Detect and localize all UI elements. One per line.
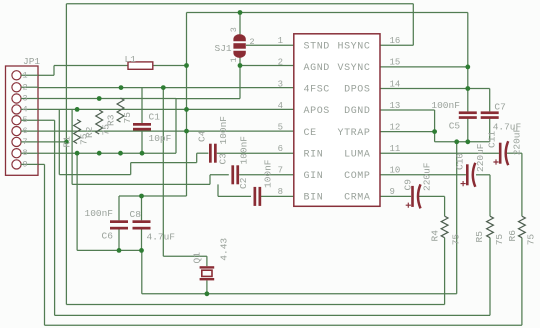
wire staircase	[131, 162, 197, 164]
wire rail A	[142, 293, 457, 295]
wire R4 top	[444, 196, 446, 216]
wire pin16 HSYNC	[380, 44, 413, 46]
wire HSYNC/rail-B left vertical	[65, 4, 67, 305]
capacitor C2	[254, 187, 262, 206]
svg-text:220uF: 220uF	[475, 143, 486, 172]
junction SJ1 pin3 / +5V top	[238, 10, 243, 15]
label C1	[149, 112, 172, 145]
label C5	[431, 100, 460, 132]
svg-text:CRMA: CRMA	[344, 193, 370, 204]
svg-text:5: 5	[278, 122, 283, 132]
wire C8 top lead	[141, 196, 143, 220]
junction Q1 bottom	[205, 291, 210, 296]
svg-text:R5: R5	[474, 231, 485, 243]
svg-text:APOS: APOS	[304, 106, 330, 117]
wire SJ1 pin1	[239, 57, 241, 66]
capacitor C7	[481, 111, 499, 118]
wire staircase	[217, 184, 219, 196]
wire C7 bottom lead	[489, 118, 491, 141]
wire JP1 pin6 / IC pin5 CE	[38, 130, 294, 132]
svg-text:3: 3	[278, 79, 283, 89]
svg-text:1: 1	[278, 36, 283, 46]
wire pin15 VSYNC	[380, 66, 468, 68]
wire C8 bottom lead	[141, 230, 143, 251]
wire L1 to node	[153, 65, 187, 67]
svg-text:R3: R3	[106, 114, 117, 126]
svg-text:C5: C5	[449, 121, 461, 132]
wire JP1 pin5 drop	[54, 120, 56, 315]
svg-text:C7: C7	[494, 102, 505, 113]
junction C10 net	[454, 139, 459, 144]
svg-text:100nF: 100nF	[239, 136, 250, 165]
junction R1 top	[75, 107, 80, 112]
junction C6 bottom	[117, 248, 122, 253]
svg-text:100nF: 100nF	[263, 159, 274, 188]
svg-text:2: 2	[278, 58, 283, 68]
wire JP1 pin4 / IC pin4 APOS	[38, 108, 294, 110]
wire gnd drop left	[76, 153, 78, 250]
svg-text:C4: C4	[197, 130, 208, 142]
junction pin14	[465, 86, 470, 91]
svg-text:JP1: JP1	[23, 56, 40, 67]
capacitor C4	[209, 144, 217, 163]
junction SJ1 pin1 / AGND	[238, 63, 243, 68]
svg-text:YTRAP: YTRAP	[337, 128, 370, 139]
wire +5V right drop to C5	[467, 13, 469, 112]
wire gnd drop	[175, 99, 177, 154]
wire SJ1 pin2 to IC pin1	[246, 44, 294, 46]
wire C7 top lead	[489, 89, 491, 112]
junction R3 bottom	[118, 151, 123, 156]
wire +5V top run	[187, 12, 468, 14]
svg-text:13: 13	[390, 101, 401, 111]
wire pin10 COMP	[380, 174, 466, 176]
wire SJ1 pin3	[239, 13, 241, 35]
svg-text:DGND: DGND	[344, 106, 370, 117]
wire C11 out	[506, 152, 522, 154]
svg-text:C1: C1	[149, 112, 161, 123]
wire C3 left lead	[210, 174, 229, 176]
svg-text:10: 10	[390, 166, 401, 176]
capacitor C8	[133, 220, 151, 229]
wire JP1 pin7	[38, 141, 66, 143]
wire R6 bottom	[521, 238, 523, 326]
svg-text:12: 12	[390, 122, 401, 132]
wire to IC pin2 AGND	[240, 65, 294, 67]
wire staircase	[59, 174, 130, 176]
svg-text:100nF: 100nF	[218, 116, 229, 145]
svg-text:AGND: AGND	[304, 63, 330, 74]
svg-text:4.43: 4.43	[219, 238, 230, 261]
svg-text:2: 2	[23, 82, 28, 92]
wire Q1 bottom lead	[206, 280, 208, 293]
svg-text:1: 1	[229, 57, 239, 62]
svg-text:C11: C11	[486, 131, 497, 148]
solder jumper SJ1	[215, 27, 255, 62]
wire pin14 DPOS	[380, 88, 490, 90]
wire staircase riser	[71, 109, 73, 184]
label C8	[130, 209, 176, 243]
label C7	[493, 102, 522, 133]
svg-text:DPOS: DPOS	[344, 85, 370, 96]
junction R2 top	[97, 96, 102, 101]
wire JP1 pin1	[38, 74, 54, 76]
wire staircase	[130, 163, 132, 175]
wire C5/C7 bottoms	[435, 141, 490, 143]
label C4	[197, 116, 230, 145]
svg-text:GIN: GIN	[304, 171, 324, 182]
svg-text:CE: CE	[304, 128, 317, 139]
resistor R6	[507, 216, 537, 245]
polarized capacitor C9	[406, 184, 421, 208]
wire rail D	[45, 324, 522, 326]
resistor R4	[430, 216, 462, 245]
wire JP1 pin3	[38, 98, 176, 100]
svg-text:7: 7	[278, 166, 283, 176]
wire HSYNC net top	[66, 3, 413, 5]
wire C3 to pin7 GIN	[239, 174, 294, 176]
svg-text:COMP: COMP	[344, 171, 370, 182]
wire ground bus JP1 pin8	[38, 152, 176, 154]
junction R2 bottom	[97, 151, 102, 156]
svg-text:C8: C8	[130, 209, 142, 220]
svg-text:75: 75	[526, 234, 537, 246]
wire pin9 CRMA	[380, 195, 411, 197]
junction CE	[184, 129, 189, 134]
connector JP1	[6, 56, 41, 176]
junction node A	[184, 63, 189, 68]
svg-text:LUMA: LUMA	[344, 149, 370, 160]
wire C9 out	[419, 195, 445, 197]
svg-text:2: 2	[250, 37, 255, 47]
svg-text:9: 9	[390, 187, 395, 197]
svg-text:7: 7	[23, 137, 28, 147]
wire Q1 top lead	[206, 256, 208, 266]
label C6	[85, 208, 114, 242]
resistor R3	[106, 98, 134, 126]
svg-text:75: 75	[122, 112, 133, 124]
label C10	[455, 143, 487, 172]
junction R1 bottom	[75, 151, 80, 156]
svg-text:4: 4	[23, 104, 28, 114]
junction C8 bottom	[139, 248, 144, 253]
svg-text:R1: R1	[62, 136, 73, 148]
wire C1 top lead	[141, 88, 143, 123]
svg-text:R6: R6	[507, 230, 518, 242]
junction 4FSC	[161, 85, 166, 90]
wire +5V riser	[186, 13, 188, 66]
wire JP1 pin2 to IC pin3 4FSC	[38, 87, 294, 89]
svg-text:STND: STND	[304, 42, 330, 53]
wire drop to rail A	[141, 250, 143, 293]
polarized capacitor C11	[493, 141, 508, 165]
capacitor C5	[459, 111, 477, 118]
wire DGND riser	[456, 142, 458, 294]
wire C4 to pin6 RIN	[217, 152, 294, 154]
wire C6 top lead	[118, 196, 120, 220]
svg-text:VSYNC: VSYNC	[337, 63, 370, 74]
svg-text:R4: R4	[430, 230, 441, 242]
wire bypass top	[119, 195, 187, 197]
wire staircase	[196, 153, 198, 162]
svg-text:4FSC: 4FSC	[304, 85, 330, 96]
wire JP1 pin5	[38, 119, 55, 121]
junction APOS	[184, 107, 189, 112]
wire R5 top	[489, 175, 491, 216]
wire 4FSC drop to crystal	[162, 88, 164, 257]
label C11	[486, 126, 522, 155]
svg-text:6: 6	[278, 144, 283, 154]
wire R5 bottom	[489, 238, 491, 316]
svg-text:C6: C6	[102, 231, 114, 242]
resistor R5	[474, 216, 505, 245]
crystal Q1 4.43MHz	[192, 238, 230, 281]
wire to pin16	[412, 4, 414, 46]
svg-text:9: 9	[23, 159, 28, 169]
junction pin12	[432, 129, 437, 134]
wire C1 bottom lead	[141, 131, 143, 154]
svg-text:10pF: 10pF	[149, 133, 172, 144]
svg-text:Q1: Q1	[192, 252, 203, 264]
wire pin12 YTRAP	[380, 131, 435, 133]
wire C2 left lead	[218, 195, 251, 197]
svg-text:6: 6	[23, 126, 28, 136]
svg-text:HSYNC: HSYNC	[337, 42, 370, 53]
svg-text:75: 75	[450, 234, 461, 246]
svg-text:8: 8	[278, 187, 283, 197]
wire R4 bottom	[444, 238, 446, 305]
wire +5V down to bypass caps	[186, 66, 188, 197]
wire C5 bottom lead	[467, 118, 469, 141]
svg-text:100nF: 100nF	[85, 208, 114, 219]
wire staircase	[72, 183, 210, 185]
junction C1 bottom	[140, 151, 145, 156]
svg-text:220uF: 220uF	[511, 126, 522, 155]
wire jog up	[53, 66, 55, 76]
svg-text:1: 1	[23, 70, 28, 80]
label C2	[238, 159, 274, 189]
svg-text:75: 75	[494, 234, 505, 246]
resistor R1	[62, 120, 90, 148]
svg-text:C2: C2	[238, 177, 249, 189]
junction C8 top	[139, 194, 144, 199]
wire JP1 pin9 drop	[44, 164, 46, 325]
wire JP1 pin9	[38, 163, 45, 165]
label C3	[218, 136, 250, 165]
svg-text:220uF: 220uF	[421, 162, 432, 191]
svg-text:C10: C10	[455, 153, 466, 170]
capacitor C3	[231, 165, 239, 184]
svg-text:5: 5	[23, 115, 28, 125]
svg-text:L1: L1	[125, 54, 137, 65]
wire bypass gnd	[77, 249, 142, 251]
inductor L1	[125, 54, 153, 69]
wire staircase riser	[58, 109, 60, 174]
svg-text:SJ1: SJ1	[215, 43, 232, 54]
wire pin13 drop	[434, 110, 436, 142]
wire to L1	[54, 65, 128, 67]
wire staircase	[209, 175, 211, 185]
label C9	[403, 162, 433, 191]
wire pin13 DGND	[380, 109, 435, 111]
IC pin numbers	[278, 36, 401, 197]
svg-text:8: 8	[23, 148, 28, 158]
svg-text:RIN: RIN	[304, 149, 324, 160]
svg-text:R2: R2	[84, 126, 95, 138]
polarized capacitor C10	[461, 163, 476, 187]
wire rail B	[66, 304, 444, 306]
wire gnd riser	[239, 66, 241, 99]
svg-text:BIN: BIN	[304, 193, 324, 204]
svg-text:4.7uF: 4.7uF	[147, 232, 176, 243]
svg-text:3: 3	[229, 27, 239, 32]
svg-text:16: 16	[390, 36, 401, 46]
wire R6 top	[521, 153, 523, 216]
junction C5 bottom	[465, 139, 470, 144]
wire rail C	[55, 314, 490, 316]
junction pin15	[465, 65, 470, 70]
junction R3 top	[119, 85, 124, 90]
svg-text:11: 11	[390, 144, 401, 154]
capacitor C1	[133, 123, 151, 131]
svg-text:4: 4	[278, 101, 283, 111]
wire pin11 LUMA	[380, 152, 499, 154]
svg-text:15: 15	[390, 58, 401, 68]
wire to Q1	[163, 255, 207, 257]
wire C2 to pin8 BIN	[261, 195, 294, 197]
capacitor C6	[110, 220, 128, 229]
svg-text:C9: C9	[403, 179, 414, 191]
svg-text:C3: C3	[218, 153, 229, 165]
wire C6 bottom lead	[118, 230, 120, 251]
svg-text:14: 14	[390, 79, 401, 89]
svg-text:3: 3	[23, 94, 28, 104]
wire C4 left lead	[197, 152, 209, 154]
junction JP1 pin7	[64, 140, 69, 145]
wire C10 out	[476, 174, 490, 176]
wire gnd jog	[176, 98, 240, 100]
op-amp U1 (AD724 encoder IC)	[294, 34, 380, 207]
svg-text:100nF: 100nF	[431, 100, 460, 111]
resistor R2	[84, 110, 112, 138]
